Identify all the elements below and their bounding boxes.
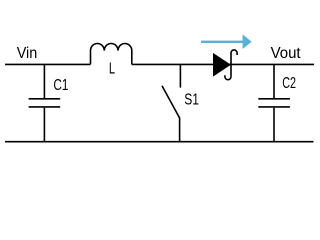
svg-text:Vout: Vout [271,45,302,62]
svg-text:L: L [109,61,115,78]
svg-text:Vin: Vin [17,45,38,62]
svg-text:C1: C1 [53,77,68,94]
svg-text:C2: C2 [282,75,296,92]
svg-text:S1: S1 [184,92,199,109]
